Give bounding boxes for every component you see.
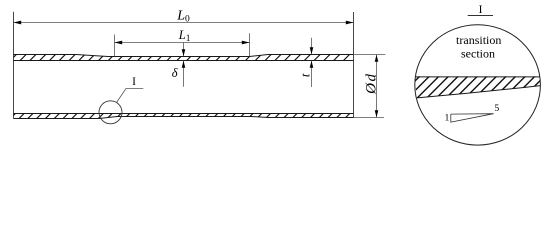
svg-text:L: L [176,9,185,24]
dimension Od line [376,55,378,118]
svg-text:t: t [299,73,313,77]
svg-text:I: I [479,4,483,16]
dimension L1 right arrow [242,41,250,45]
dimension t bottom arrow [311,61,313,87]
pipe right end line [353,12,355,118]
dimension L1 left arrow [115,41,123,45]
dimension L1 line [115,42,250,44]
dimension delta top arrow [183,43,185,56]
slope symbol [451,114,494,123]
svg-text:transition: transition [456,33,501,47]
leader line [117,89,144,103]
pipe left end line [13,12,15,119]
svg-text:δ: δ [172,66,178,80]
dimension L0 right arrow [346,21,354,25]
svg-text:Ød: Ød [363,73,379,95]
svg-text:5: 5 [494,103,499,114]
detail view circle [415,25,541,145]
svg-text:L: L [178,28,186,42]
dimension L1 extension left [114,35,116,58]
bottom wall outline [14,113,354,115]
dimension L0 left arrow [14,21,22,25]
Od extension bottom [354,117,385,119]
dimension t top arrow [311,38,313,54]
svg-text:0: 0 [185,14,190,24]
detail indicator circle [99,101,122,124]
bottom wall hatching [10,113,368,119]
dimension L1 extension right [249,33,251,57]
svg-text:section: section [461,46,495,60]
dimension L0 line [14,22,354,24]
top wall hatching [10,54,360,61]
svg-text:1: 1 [444,113,449,124]
detail band [398,76,550,99]
dimension delta bottom arrow [183,61,185,87]
svg-text:I: I [132,76,136,88]
svg-text:1: 1 [186,33,191,43]
top wall outline [14,55,354,57]
Od extension top [354,54,386,56]
